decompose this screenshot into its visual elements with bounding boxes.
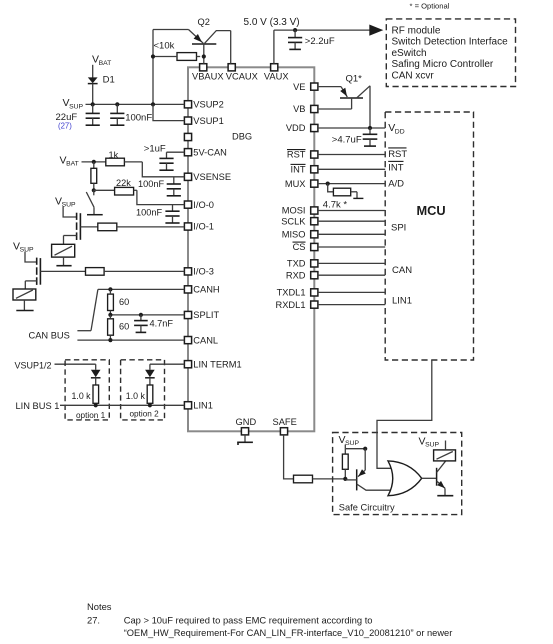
- MCU block: [385, 112, 473, 360]
- pin VSENSE: [184, 172, 231, 182]
- resistor <10k: [153, 41, 200, 61]
- wire MUX: [318, 182, 385, 186]
- wire VB to Q1 base: [318, 108, 352, 110]
- resistor gate1: [80, 223, 184, 231]
- svg-text:eSwitch: eSwitch: [392, 48, 427, 59]
- arrow to RF module: [369, 25, 383, 36]
- resistor 1.0k option1: [72, 385, 99, 405]
- transistor Q2: [189, 17, 231, 64]
- svg-text:Cap > 10uF required to pass EM: Cap > 10uF required to pass EMC requirem…: [124, 615, 373, 626]
- wire VDD: [318, 126, 385, 130]
- capacitor 100nF bulk: [110, 104, 152, 125]
- svg-text:DBG: DBG: [232, 132, 252, 142]
- svg-text:27.: 27.: [87, 615, 100, 626]
- svg-text:SUP: SUP: [345, 440, 359, 447]
- capacitor >1uF: [144, 143, 185, 170]
- svg-text:SUP: SUP: [20, 247, 34, 254]
- supply VBAT: [92, 54, 111, 78]
- wire TXD: [318, 262, 385, 264]
- svg-text:>4.7uF: >4.7uF: [332, 134, 362, 145]
- pin CANH: [184, 285, 219, 295]
- pin RXD: [286, 270, 318, 280]
- pin INT: [291, 164, 318, 174]
- label CAN mcu: [392, 265, 412, 276]
- wire 5V rail: [274, 28, 370, 64]
- svg-text:“OEM_HW_Requirement-For CAN_LI: “OEM_HW_Requirement-For CAN_LIN_FR-inter…: [124, 628, 453, 638]
- svg-text:BAT: BAT: [99, 60, 112, 67]
- svg-text:Safe Circuitry: Safe Circuitry: [339, 502, 395, 512]
- wire VSUP1/2 to option1: [55, 364, 96, 370]
- pin CS: [293, 242, 318, 252]
- svg-text:MUX: MUX: [285, 179, 306, 189]
- pin VCAUX: [226, 64, 258, 82]
- supply VSUP safe left: [339, 434, 368, 451]
- note ref (27): [58, 122, 72, 131]
- svg-text:1.0 k: 1.0 k: [126, 391, 146, 401]
- capacitor >2.2uF: [288, 30, 335, 49]
- svg-text:option 1: option 1: [76, 411, 106, 420]
- svg-text:D1: D1: [103, 74, 115, 85]
- safe circuitry box: [333, 433, 462, 515]
- svg-text:(27): (27): [58, 122, 72, 131]
- svg-text:LIN BUS 1: LIN BUS 1: [16, 401, 60, 411]
- svg-text:RF module: RF module: [392, 25, 441, 36]
- wire 22k to I/O-0: [137, 190, 185, 204]
- svg-text:100nF: 100nF: [138, 179, 164, 189]
- svg-text:VSENSE: VSENSE: [193, 172, 231, 182]
- load lamp1: [52, 236, 75, 266]
- diode D1: [88, 74, 115, 104]
- note 27 line2: [124, 628, 453, 638]
- wire INT: [318, 168, 385, 170]
- diode option1: [91, 370, 101, 385]
- supply VBAT 2: [60, 154, 106, 167]
- capacitor 4.7nF: [134, 315, 173, 333]
- wire VSUP rail: [86, 102, 185, 106]
- svg-text:VSUP2: VSUP2: [193, 100, 224, 110]
- svg-text:60: 60: [119, 322, 129, 332]
- label LIN BUS 1: [16, 401, 60, 411]
- svg-text:GND: GND: [236, 417, 257, 427]
- svg-text:VB: VB: [293, 104, 305, 114]
- resistor safe pullup: [342, 449, 348, 481]
- pin MOSI: [282, 206, 318, 216]
- wire VSUP1 drop: [153, 104, 184, 120]
- wire OR output: [422, 477, 437, 479]
- pin MUX: [285, 179, 318, 189]
- wire TXDL1: [318, 291, 385, 293]
- svg-text:5.0 V (3.3 V): 5.0 V (3.3 V): [244, 17, 300, 28]
- resistor 60 top: [108, 289, 130, 315]
- pin VAUX: [264, 64, 289, 82]
- option 1 box: [65, 360, 109, 420]
- label RST mcu: [388, 148, 407, 160]
- svg-text:5V-CAN: 5V-CAN: [193, 147, 227, 157]
- wire RXD: [318, 274, 385, 276]
- svg-text:SAFE: SAFE: [273, 417, 297, 427]
- pin GND: [236, 417, 257, 435]
- svg-text:* = Optional: * = Optional: [410, 2, 450, 11]
- relay load safe: [434, 441, 456, 461]
- pin TXD: [287, 259, 318, 269]
- pin VE: [293, 82, 318, 92]
- svg-text:LIN1: LIN1: [193, 401, 213, 411]
- wire MISO: [318, 233, 385, 235]
- pin RXDL1: [276, 300, 318, 310]
- resistor 22k: [94, 178, 137, 195]
- label SPI mcu: [391, 223, 406, 234]
- svg-text:VCAUX: VCAUX: [226, 71, 258, 81]
- svg-text:I/O-0: I/O-0: [193, 200, 214, 210]
- transistor M1 PMOS: [64, 213, 81, 240]
- load lamp2: [13, 281, 36, 311]
- wire RST: [318, 154, 385, 156]
- resistor 1k: [106, 150, 143, 166]
- wire LIN TERM1 to option2: [150, 364, 185, 370]
- diode option2: [145, 370, 155, 385]
- svg-text:LIN TERM1: LIN TERM1: [193, 359, 241, 369]
- pin SAFE: [273, 417, 297, 435]
- pin VDD: [286, 123, 318, 133]
- wire VE: [318, 86, 341, 88]
- wire SAFE down: [284, 435, 294, 479]
- supply VSUP safe right: [419, 435, 440, 448]
- svg-text:1k: 1k: [109, 150, 119, 160]
- svg-text:I/O-3: I/O-3: [193, 267, 214, 277]
- svg-text:BAT: BAT: [66, 161, 79, 168]
- svg-text:>1uF: >1uF: [144, 143, 166, 154]
- wire Q1 collector: [369, 86, 371, 128]
- main IC U1: [188, 67, 314, 431]
- node Q2 base junction: [202, 54, 206, 58]
- pin VSUP2: [184, 100, 223, 110]
- pin MISO: [282, 230, 318, 240]
- wire MCU to safe: [377, 360, 432, 468]
- wire CANH: [98, 287, 184, 291]
- svg-text:Notes: Notes: [87, 601, 112, 612]
- svg-text:SPLIT: SPLIT: [193, 310, 219, 320]
- svg-text:VAUX: VAUX: [264, 71, 289, 81]
- svg-text:<10k: <10k: [154, 41, 175, 52]
- svg-text:I/O-1: I/O-1: [193, 222, 214, 232]
- wire Q2 collector to VCAUX: [230, 31, 232, 64]
- svg-text:4.7nF: 4.7nF: [150, 319, 174, 329]
- svg-text:VDD: VDD: [286, 123, 306, 133]
- pin VBAUX: [192, 64, 224, 82]
- svg-text:RXDL1: RXDL1: [276, 300, 306, 310]
- svg-text:SCLK: SCLK: [281, 216, 306, 226]
- svg-text:CANL: CANL: [193, 335, 218, 345]
- svg-text:SUP: SUP: [69, 103, 83, 110]
- svg-text:SPI: SPI: [391, 223, 406, 234]
- svg-text:100nF: 100nF: [125, 113, 152, 124]
- svg-text:MOSI: MOSI: [282, 206, 306, 216]
- svg-text:TXDL1: TXDL1: [277, 288, 306, 298]
- svg-text:>2.2uF: >2.2uF: [305, 36, 335, 47]
- pin SPLIT: [184, 310, 219, 320]
- svg-text:100nF: 100nF: [136, 208, 162, 218]
- svg-text:DD: DD: [395, 128, 405, 135]
- pin DBG: [184, 132, 252, 142]
- svg-text:VSUP1/2: VSUP1/2: [15, 360, 52, 370]
- svg-text:A/D: A/D: [388, 178, 404, 189]
- svg-text:SUP: SUP: [425, 442, 439, 449]
- svg-text:CS: CS: [293, 242, 306, 252]
- svg-text:MCU: MCU: [417, 203, 446, 218]
- svg-text:TXD: TXD: [287, 259, 306, 269]
- capacitor >4.7uF: [332, 128, 378, 146]
- wire SPLIT: [108, 313, 184, 317]
- pin I/O-0: [184, 200, 214, 210]
- svg-text:SUP: SUP: [62, 202, 76, 209]
- transistor M2 PMOS: [25, 258, 40, 285]
- capacitor 22uF: [56, 104, 100, 125]
- OR gate U2: [388, 461, 422, 496]
- supply VSUP rail label: [63, 97, 84, 110]
- svg-text:4.7k *: 4.7k *: [323, 200, 348, 211]
- svg-text:1.0 k: 1.0 k: [72, 391, 92, 401]
- svg-text:RXD: RXD: [286, 270, 306, 280]
- resistor pulldown vertical: [91, 162, 97, 190]
- svg-text:MISO: MISO: [282, 230, 306, 240]
- note optional: [410, 2, 450, 11]
- wire LIN1 bus: [60, 403, 184, 407]
- pin VB: [293, 104, 318, 114]
- resistor 1.0k option2: [126, 385, 153, 405]
- supply 5.0V label: [244, 17, 300, 28]
- pin LIN TERM1: [184, 359, 241, 369]
- wire CANL: [77, 338, 184, 342]
- svg-text:VSUP1: VSUP1: [193, 116, 224, 126]
- svg-text:INT: INT: [388, 162, 404, 173]
- wire 1k to VSENSE: [142, 162, 184, 177]
- note 27 line1: [87, 615, 373, 626]
- supply VSUP mosfet2: [13, 240, 37, 262]
- svg-text:VBAUX: VBAUX: [192, 71, 224, 81]
- svg-text:CAN xcvr: CAN xcvr: [392, 71, 435, 82]
- svg-text:INT: INT: [291, 165, 306, 175]
- ground at GND pin: [237, 435, 253, 445]
- label VSUP1/2: [15, 360, 52, 370]
- svg-text:Safing Micro Controller: Safing Micro Controller: [392, 59, 494, 70]
- wire SCLK: [318, 220, 385, 222]
- pin LIN1: [184, 401, 213, 411]
- label A/D mcu: [388, 178, 404, 189]
- transistor safe NPN: [437, 461, 446, 495]
- svg-text:LIN1: LIN1: [392, 296, 412, 307]
- label INT mcu: [388, 161, 404, 173]
- ground safe NPN: [437, 495, 453, 497]
- resistor safe series: [294, 475, 346, 483]
- svg-text:CAN: CAN: [392, 265, 412, 276]
- transistor safe PNP: [345, 449, 393, 491]
- node CAN BUS: [29, 289, 98, 340]
- pin RST: [287, 150, 318, 160]
- svg-text:Q1*: Q1*: [346, 74, 363, 85]
- pin 5V-CAN: [184, 147, 226, 157]
- svg-text:option 2: option 2: [130, 410, 160, 419]
- pin SCLK: [281, 216, 318, 226]
- resistor gate2: [40, 268, 184, 276]
- RF module block: [386, 19, 515, 87]
- pin CANL: [184, 335, 218, 345]
- svg-text:Switch Detection Interface: Switch Detection Interface: [392, 37, 509, 48]
- transistor Q1: [340, 74, 370, 110]
- svg-text:60: 60: [119, 297, 129, 307]
- capacitor 100nF io0: [136, 205, 180, 223]
- wire CS: [318, 246, 385, 248]
- resistor 60 bottom: [108, 315, 130, 340]
- wire Q2 emitter rail: [153, 29, 189, 31]
- label VDD mcu: [388, 122, 405, 135]
- wire VBAT branch vertical: [151, 30, 155, 105]
- svg-text:22k: 22k: [116, 178, 131, 188]
- resistor 4.7k optional: [323, 184, 364, 211]
- wire RXDL1: [318, 304, 385, 306]
- switch S1: [86, 190, 102, 214]
- wire MOSI: [318, 210, 385, 212]
- pin I/O-1: [184, 222, 214, 232]
- pin VSUP1: [184, 116, 223, 126]
- svg-text:Q2: Q2: [198, 17, 210, 27]
- capacitor 100nF vsense: [138, 177, 181, 196]
- svg-text:RST: RST: [287, 150, 306, 160]
- svg-text:RST: RST: [388, 149, 407, 160]
- label LIN1 mcu: [392, 296, 412, 307]
- notes header: [87, 601, 112, 612]
- svg-text:CANH: CANH: [193, 285, 219, 295]
- supply VSUP mosfet1: [55, 195, 77, 217]
- pin TXDL1: [277, 288, 318, 298]
- option 2 box: [121, 360, 165, 420]
- svg-text:VE: VE: [293, 82, 305, 92]
- svg-text:CAN BUS: CAN BUS: [29, 331, 70, 341]
- pin I/O-3: [184, 267, 214, 277]
- node 22k junction: [92, 188, 96, 192]
